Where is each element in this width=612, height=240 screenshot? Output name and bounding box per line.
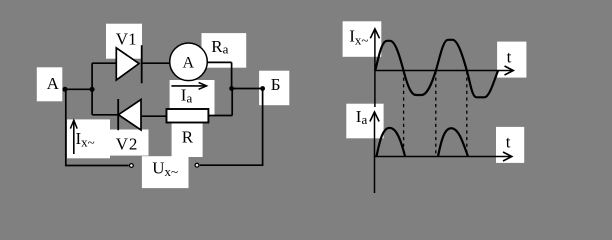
svg-text:V2: V2 <box>116 134 138 153</box>
svg-text:A: A <box>47 74 60 93</box>
svg-text:t: t <box>507 48 512 67</box>
svg-text:V1: V1 <box>116 30 137 49</box>
svg-text:t: t <box>506 132 511 151</box>
svg-text:Б: Б <box>271 75 281 94</box>
svg-text:A: A <box>183 55 195 72</box>
svg-text:R: R <box>182 128 194 147</box>
